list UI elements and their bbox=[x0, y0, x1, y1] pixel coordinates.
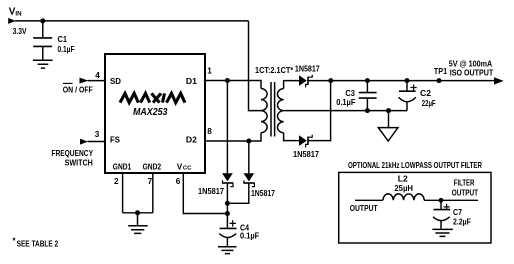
node VIN/C1 junction bbox=[40, 18, 45, 23]
svg-text:25µH: 25µH bbox=[394, 184, 413, 193]
svg-text:FILTER: FILTER bbox=[454, 178, 475, 187]
wire GND1 pin bbox=[122, 173, 124, 213]
node TP1 bbox=[437, 78, 442, 83]
svg-text:OPTIONAL 21kHz LOWPASS OUTPUT: OPTIONAL 21kHz LOWPASS OUTPUT FILTER bbox=[348, 161, 482, 170]
wire D2 to transformer primary bottom bbox=[205, 133, 261, 141]
C2 plus sign bbox=[411, 84, 417, 90]
wire SD input bbox=[88, 80, 106, 82]
output arrow bbox=[494, 77, 504, 84]
wire output top rail bbox=[309, 80, 495, 82]
diode D3 1N5817 (secondary top) bbox=[299, 75, 307, 86]
ground (isolated output, open triangle) bbox=[388, 111, 390, 128]
wire VIN riser to primary center tap bbox=[249, 21, 262, 111]
C4 plus sign bbox=[230, 220, 237, 226]
inductor L2 bbox=[383, 194, 424, 200]
svg-text:CC: CC bbox=[183, 166, 192, 172]
svg-text:7: 7 bbox=[148, 177, 153, 186]
node filter junction bbox=[439, 198, 444, 203]
wire bottom diode riser to top rail bbox=[309, 81, 331, 141]
diode D4 1N5817 (secondary bottom) bbox=[299, 135, 307, 146]
svg-text:1N5817: 1N5817 bbox=[198, 187, 224, 196]
svg-text:0.1µF: 0.1µF bbox=[240, 232, 259, 241]
wire secondary bottom to diode bbox=[284, 133, 299, 141]
svg-text:1CT:2.1CT*: 1CT:2.1CT* bbox=[255, 66, 294, 75]
diode D6 1N5817 (right, from D2) bbox=[248, 141, 250, 173]
svg-text:FS: FS bbox=[110, 136, 121, 145]
ground C1 bbox=[33, 60, 53, 68]
wire D1 to transformer primary top bbox=[205, 81, 261, 89]
node Vcc junction bbox=[225, 211, 230, 216]
svg-text:C1: C1 bbox=[58, 35, 68, 44]
ground (IC) bbox=[137, 213, 139, 225]
filter box bbox=[339, 172, 491, 243]
C7 plus sign bbox=[444, 204, 450, 210]
wire C1 stems bbox=[42, 21, 44, 60]
wire secondary center tap / bottom rail bbox=[284, 110, 407, 112]
svg-text:SD: SD bbox=[110, 77, 121, 86]
wire FS input bbox=[88, 141, 106, 143]
svg-text:5V @ 100mA: 5V @ 100mA bbox=[449, 59, 492, 68]
wire filter output bbox=[424, 199, 478, 201]
node rectifier junction bbox=[328, 78, 333, 83]
svg-text:MAX253: MAX253 bbox=[133, 107, 168, 118]
diode D5 1N5817 (left, from D1) bbox=[226, 81, 228, 174]
svg-text:3.3V: 3.3V bbox=[13, 27, 27, 36]
node gnd junction bbox=[135, 210, 140, 215]
wire filter input bbox=[355, 199, 383, 201]
node C3 top bbox=[365, 78, 370, 83]
svg-text:8: 8 bbox=[207, 127, 212, 136]
svg-text:1N5817: 1N5817 bbox=[295, 65, 320, 74]
svg-text:1: 1 bbox=[207, 67, 212, 76]
svg-text:GND1: GND1 bbox=[113, 163, 132, 172]
svg-text:2: 2 bbox=[114, 177, 119, 186]
svg-text:OUTPUT: OUTPUT bbox=[350, 204, 378, 213]
input ON/OFF arrow bbox=[80, 78, 89, 84]
node D1/diode junction bbox=[225, 78, 230, 83]
svg-text:V: V bbox=[177, 163, 183, 172]
node ON/OFF label with overline bbox=[63, 82, 73, 84]
wire left diode to C4 node bbox=[226, 183, 228, 228]
svg-text:D2: D2 bbox=[186, 136, 197, 145]
transformer T1 core bbox=[271, 82, 275, 137]
wire Vcc pin to C4 node bbox=[183, 173, 227, 214]
svg-text:ON / OFF: ON / OFF bbox=[63, 85, 93, 94]
capacitor C1 bbox=[33, 38, 52, 47]
transformer T1 primary winding bbox=[261, 89, 267, 133]
wire gnd link bbox=[123, 212, 153, 214]
svg-text:SWITCH: SWITCH bbox=[65, 159, 93, 168]
svg-text:0.1µF: 0.1µF bbox=[336, 98, 355, 107]
capacitor C2 polarized bbox=[406, 81, 408, 111]
MAXIM logo bbox=[120, 93, 185, 102]
svg-text:C2: C2 bbox=[420, 89, 431, 98]
svg-text:SEE TABLE 2: SEE TABLE 2 bbox=[17, 240, 59, 249]
node C2 top bbox=[405, 78, 410, 83]
svg-text:1N5817: 1N5817 bbox=[251, 189, 275, 198]
node diode junction bbox=[225, 201, 230, 206]
svg-text:2.2µF: 2.2µF bbox=[453, 217, 471, 226]
node bottom rail ground junction bbox=[386, 108, 391, 113]
svg-text:6: 6 bbox=[176, 177, 181, 186]
svg-text:D1: D1 bbox=[186, 77, 197, 86]
wire secondary top to diode bbox=[284, 81, 299, 89]
svg-text:3: 3 bbox=[95, 130, 100, 139]
capacitor C4 polarized bbox=[220, 227, 237, 229]
svg-text:22µF: 22µF bbox=[422, 99, 436, 108]
ground C4 bbox=[218, 247, 237, 254]
input FREQUENCY SWITCH arrow bbox=[80, 139, 88, 145]
svg-text:IN: IN bbox=[15, 10, 22, 17]
wire VIN top rail bbox=[15, 20, 249, 22]
svg-text:TP1: TP1 bbox=[434, 67, 448, 76]
svg-text:GND2: GND2 bbox=[143, 163, 162, 172]
input VIN arrow bbox=[8, 18, 15, 24]
svg-text:C3: C3 bbox=[345, 89, 355, 98]
wire GND2 pin bbox=[152, 173, 154, 213]
svg-text:C7: C7 bbox=[453, 208, 462, 217]
node D2/diode junction bbox=[246, 139, 251, 144]
wire right diode to junction bbox=[227, 183, 248, 203]
svg-text:L2: L2 bbox=[398, 174, 408, 183]
ground C7 bbox=[432, 229, 453, 236]
svg-text:FREQUENCY: FREQUENCY bbox=[51, 149, 93, 158]
transformer T1 secondary winding bbox=[277, 89, 283, 133]
svg-text:0.1µF: 0.1µF bbox=[58, 45, 75, 54]
svg-text:ISO OUTPUT: ISO OUTPUT bbox=[450, 68, 493, 77]
svg-text:1N5817: 1N5817 bbox=[293, 150, 319, 159]
svg-text:OUTPUT: OUTPUT bbox=[452, 189, 478, 198]
capacitor C7 polarized bbox=[440, 200, 442, 209]
op-amp U1 MAX253 IC body bbox=[105, 54, 205, 173]
svg-text:4: 4 bbox=[95, 71, 100, 80]
node C3 bottom bbox=[365, 108, 370, 113]
capacitor C3 bbox=[366, 81, 368, 111]
